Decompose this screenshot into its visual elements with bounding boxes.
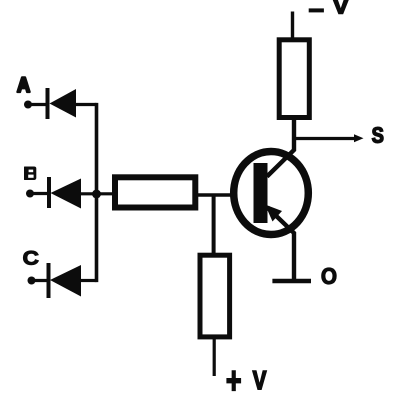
label V (top) — [332, 0, 349, 14]
label A — [17, 77, 29, 92]
label C — [24, 251, 39, 265]
wire D3 to bus corner — [81, 279, 97, 282]
wire B terminal to diode D2 — [30, 192, 49, 195]
wire D2 to resistor R1 — [81, 192, 114, 195]
diode D3 cathode bar — [47, 263, 51, 298]
transistor Q1 emitter arrow (PNP, pointing to base) — [265, 205, 282, 222]
label -V — [309, 8, 324, 12]
wire A terminal to diode D1 — [28, 103, 48, 106]
wire -V to resistor R3 — [291, 12, 294, 42]
arrowhead S — [354, 134, 364, 142]
wire input bus (A-B-C vertical) — [95, 103, 99, 282]
transistor Q1 base bar — [254, 163, 268, 223]
ground bar at emitter — [272, 279, 311, 284]
diode D3 triangle — [50, 265, 81, 297]
wire R3 to collector node — [267, 118, 294, 177]
label +V — [227, 371, 241, 391]
label O — [322, 268, 336, 284]
resistor R2 (to +V) — [200, 255, 230, 337]
label B — [24, 167, 36, 181]
diode D1 triangle — [50, 89, 77, 118]
transistor Q1 body circle — [234, 152, 309, 235]
node C input terminal — [28, 277, 36, 285]
wire output S with arrow — [293, 137, 357, 140]
wire D1 to bus — [76, 103, 97, 106]
label V (bottom) — [253, 371, 266, 389]
junction dot at B and bus — [92, 190, 101, 199]
diode D1 cathode bar — [46, 88, 50, 119]
diode D2 cathode bar — [47, 177, 51, 208]
transistor Q1 emitter line — [268, 208, 295, 281]
wire junction down to resistor R2 — [212, 195, 216, 256]
wire R1 to transistor base — [195, 193, 234, 196]
node B input terminal — [26, 190, 34, 198]
resistor R3 (collector load to -V) — [279, 40, 309, 118]
resistor R1 (series base resistor) — [115, 177, 195, 207]
node A input terminal — [24, 101, 32, 109]
label S — [372, 127, 383, 143]
wire C terminal to diode D3 — [32, 279, 50, 282]
diode D2 triangle — [51, 179, 82, 209]
wire R2 to +V — [213, 337, 216, 376]
